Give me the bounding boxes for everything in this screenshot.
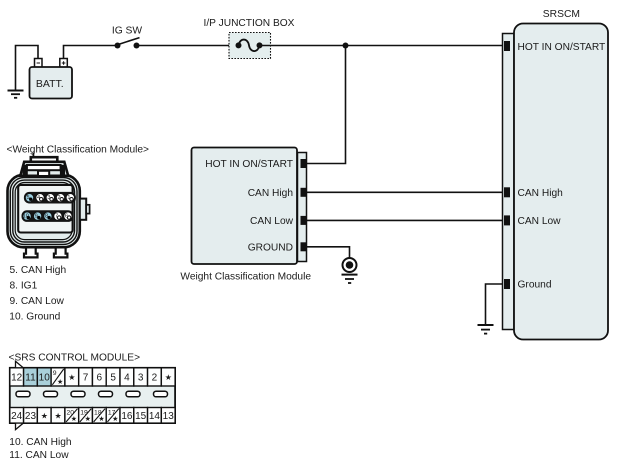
SRS connector top row cell 2 xyxy=(148,368,162,386)
SRS connector top row cell 11 xyxy=(24,368,38,386)
WCM connector pin carrier bottom row xyxy=(22,210,74,222)
svg-text:16: 16 xyxy=(121,411,133,422)
SRS connector bottom row cell 14 xyxy=(148,408,162,424)
WCM connector pin 4 xyxy=(36,194,44,202)
wire junction down to WCM HOT IN pin xyxy=(307,46,346,164)
svg-text:23: 23 xyxy=(25,411,37,422)
SRS connector bottom row cell 24 xyxy=(10,408,24,424)
SRS connector top row cell 9 xyxy=(51,368,65,386)
svg-text:4: 4 xyxy=(124,373,130,384)
svg-text:15: 15 xyxy=(135,411,147,422)
svg-text:3: 3 xyxy=(47,195,50,201)
SRS connector bottom row cell 18 xyxy=(92,408,106,424)
svg-text:6: 6 xyxy=(65,213,68,219)
svg-text:CAN Low: CAN Low xyxy=(250,216,294,227)
SRS connector bottom row cell 13 xyxy=(161,408,175,424)
pin SRSCM Ground xyxy=(504,279,510,289)
wire junction box to SRSCM HOT IN pin xyxy=(260,45,505,47)
svg-text:12: 12 xyxy=(11,373,23,384)
pin list WCM connector xyxy=(9,265,66,322)
svg-text:10. Ground: 10. Ground xyxy=(9,311,60,322)
svg-text:5: 5 xyxy=(110,373,116,384)
pin SRSCM CAN High xyxy=(504,187,510,197)
wire battery positive to IG SW xyxy=(64,46,118,60)
SRS connector bottom row cell star xyxy=(51,408,65,424)
SRS connector top row cell star xyxy=(65,368,79,386)
svg-text:Ground: Ground xyxy=(518,280,552,291)
SRS connector top row cell 4 xyxy=(120,368,134,386)
module SRSCM xyxy=(503,9,609,340)
svg-text:7: 7 xyxy=(55,213,58,219)
SRS connector top row cell 7 xyxy=(79,368,93,386)
WCM connector top latch xyxy=(20,153,68,176)
WCM connector pin 2 xyxy=(56,194,64,202)
svg-text:★: ★ xyxy=(57,378,63,386)
svg-text:★: ★ xyxy=(112,415,118,423)
SRS connector bottom row cell 20 xyxy=(65,408,79,424)
SRS connector top row cell 12 xyxy=(10,368,24,386)
SRS connector body xyxy=(10,368,175,423)
svg-text:5. CAN High: 5. CAN High xyxy=(10,265,67,276)
SRS connector orientation arrow bottom xyxy=(16,423,24,430)
WCM connector pin 3 xyxy=(46,194,54,202)
connector SRS CONTROL MODULE (drawing) xyxy=(10,361,175,429)
SRS connector slots xyxy=(16,391,168,397)
svg-text:GROUND: GROUND xyxy=(248,242,293,253)
SRS connector top row cell 10 xyxy=(37,368,51,386)
svg-text:★: ★ xyxy=(55,412,62,421)
svg-text:4: 4 xyxy=(37,195,40,201)
svg-text:★: ★ xyxy=(98,415,104,423)
WCM connector pin 7 xyxy=(54,212,62,220)
wire battery negative to ground xyxy=(16,46,39,91)
WCM connector pin 6 xyxy=(64,212,72,220)
svg-text:9: 9 xyxy=(53,370,57,377)
svg-text:BATT.: BATT. xyxy=(36,78,64,90)
WCM connector pin carrier top row xyxy=(24,192,76,204)
svg-text:8: 8 xyxy=(45,213,48,219)
svg-text:9: 9 xyxy=(35,213,38,219)
svg-text:★: ★ xyxy=(71,415,77,423)
wire SRSCM Ground pin to ground xyxy=(486,284,505,325)
svg-text:8. IG1: 8. IG1 xyxy=(10,280,38,291)
svg-text:5: 5 xyxy=(27,195,30,201)
wire CAN High (WCM to SRSCM) xyxy=(307,191,505,193)
svg-text:10: 10 xyxy=(23,213,29,219)
module Weight Classification Module xyxy=(180,148,311,283)
SRS connector top row cell 5 xyxy=(106,368,120,386)
switch IG SW xyxy=(112,26,143,49)
svg-text:13: 13 xyxy=(163,411,175,422)
svg-text:CAN Low: CAN Low xyxy=(518,216,562,227)
WCM connector body shell xyxy=(8,175,80,248)
pin list SRS connector xyxy=(9,437,71,461)
pin WCM GROUND xyxy=(301,242,307,251)
SRS connector bottom row cell 15 xyxy=(134,408,148,424)
svg-text:10. CAN High: 10. CAN High xyxy=(9,437,71,448)
svg-text:<SRS CONTROL MODULE>: <SRS CONTROL MODULE> xyxy=(9,353,141,364)
svg-text:10: 10 xyxy=(39,373,51,384)
svg-text:CAN High: CAN High xyxy=(248,188,293,199)
svg-text:7: 7 xyxy=(83,373,89,384)
SRS connector top row cell 6 xyxy=(92,368,106,386)
SRS connector orientation arrow top xyxy=(16,361,24,368)
pin SRSCM HOT IN ON/START xyxy=(504,41,510,51)
wire CAN Low (WCM to SRSCM) xyxy=(307,219,505,221)
WCM connector pin 8 xyxy=(44,212,52,220)
svg-text:2: 2 xyxy=(152,373,158,384)
svg-text:CAN High: CAN High xyxy=(518,188,563,199)
ground (battery) xyxy=(8,91,24,98)
svg-text:<Weight Classification Module>: <Weight Classification Module> xyxy=(7,145,150,156)
svg-text:14: 14 xyxy=(149,411,161,422)
pin WCM CAN Low xyxy=(301,216,307,225)
svg-text:I/P JUNCTION BOX: I/P JUNCTION BOX xyxy=(204,18,295,29)
WCM connector right foot xyxy=(54,247,68,257)
svg-text:HOT IN ON/START: HOT IN ON/START xyxy=(205,159,293,170)
pin WCM CAN High xyxy=(301,188,307,197)
wire WCM GROUND to chassis ground xyxy=(307,247,350,258)
svg-text:9. CAN Low: 9. CAN Low xyxy=(10,296,65,307)
pin SRSCM CAN Low xyxy=(504,215,510,225)
svg-text:HOT IN ON/START: HOT IN ON/START xyxy=(518,42,606,53)
svg-text:Weight Classification Module: Weight Classification Module xyxy=(180,271,311,282)
WCM connector pin 10 xyxy=(23,212,32,220)
WCM connector pin 5 xyxy=(25,194,33,202)
svg-text:11: 11 xyxy=(25,373,36,384)
svg-text:SRSCM: SRSCM xyxy=(543,9,580,20)
SRS connector bottom row cell 19 xyxy=(79,408,93,424)
chassis ground (circle) xyxy=(342,258,358,283)
pin WCM HOT IN ON/START xyxy=(301,159,307,168)
svg-text:★: ★ xyxy=(41,412,48,421)
SRS connector bottom row cell 17 xyxy=(106,408,120,424)
battery BATT. xyxy=(30,59,73,99)
svg-text:6: 6 xyxy=(97,373,103,384)
junction node xyxy=(343,43,349,49)
WCM connector pin 9 xyxy=(33,212,41,220)
WCM connector pin 1 xyxy=(66,194,74,202)
ground (SRSCM) xyxy=(478,325,494,334)
svg-text:1: 1 xyxy=(67,195,70,201)
wire IG SW to junction box xyxy=(137,45,239,47)
WCM connector side tab xyxy=(80,199,90,220)
SRS connector bottom row cell 23 xyxy=(24,408,38,424)
SRS connector bottom row cell 16 xyxy=(120,408,134,424)
svg-text:★: ★ xyxy=(165,373,172,382)
SRS connector top row cell 3 xyxy=(134,368,148,386)
SRS connector bottom row cell star xyxy=(37,408,51,424)
SRS connector top row cell star xyxy=(161,368,175,386)
WCM connector left foot xyxy=(24,247,38,257)
svg-text:2: 2 xyxy=(58,195,61,201)
svg-text:24: 24 xyxy=(11,411,23,422)
svg-text:★: ★ xyxy=(68,373,75,382)
svg-text:11. CAN Low: 11. CAN Low xyxy=(9,450,69,461)
connector WCM (drawing) xyxy=(8,153,90,258)
svg-text:3: 3 xyxy=(138,373,144,384)
svg-text:★: ★ xyxy=(85,415,91,423)
svg-text:IG SW: IG SW xyxy=(112,26,143,37)
fuse I/P JUNCTION BOX xyxy=(204,18,295,59)
WCM connector face xyxy=(18,185,72,233)
